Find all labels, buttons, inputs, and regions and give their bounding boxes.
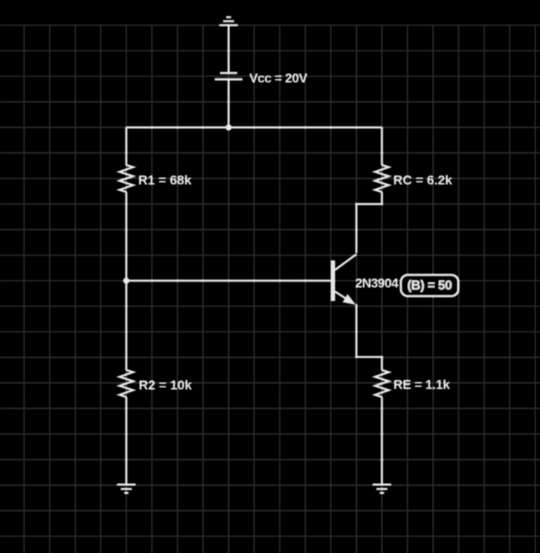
- svg-text:R2 = 10k: R2 = 10k: [139, 377, 193, 392]
- node base junction: [123, 278, 129, 284]
- wire rail to RC: [381, 127, 383, 165]
- svg-text:RE = 1.1k: RE = 1.1k: [393, 377, 450, 392]
- wire base node to R2: [125, 281, 127, 370]
- wire base (node to transistor): [126, 280, 331, 282]
- label R2 = 10k: [139, 377, 193, 392]
- node Vcc junction: [226, 124, 232, 130]
- resistor RE: [375, 370, 389, 397]
- ground (bottom right): [373, 485, 391, 493]
- label RE = 1.1k: [393, 377, 450, 392]
- resistor R2: [120, 370, 134, 397]
- label Vcc = 20V: [249, 71, 308, 86]
- svg-text:Vcc = 20V: Vcc = 20V: [249, 71, 308, 86]
- svg-text:R1 = 68k: R1 = 68k: [138, 172, 192, 187]
- label R1 = 68k: [138, 172, 192, 187]
- resistor RC: [375, 165, 389, 192]
- wire Vcc rail (horizontal): [126, 126, 382, 128]
- label (B) = 50: [407, 278, 452, 293]
- wire emitter to RE (jog): [356, 304, 382, 370]
- svg-text:2N3904: 2N3904: [355, 275, 399, 290]
- wire rail to R1: [125, 127, 127, 165]
- wire top ground to battery: [228, 25, 230, 73]
- transistor Q1 2N3904: [331, 254, 356, 305]
- battery V1 (Vcc source): [215, 73, 243, 79]
- resistor R1: [120, 165, 134, 192]
- svg-text:RC = 6.2k: RC = 6.2k: [393, 173, 453, 188]
- ground (bottom left): [117, 485, 135, 493]
- label RC = 6.2k: [393, 173, 453, 188]
- callout box for beta: [401, 275, 459, 297]
- wire RE to ground: [381, 397, 383, 485]
- wire R2 to ground: [125, 397, 127, 485]
- svg-text:(B) = 50: (B) = 50: [407, 278, 452, 293]
- wire RC to collector (jog): [356, 192, 382, 253]
- ground (top, Vcc return): [219, 17, 237, 25]
- wire battery to Vcc rail: [228, 79, 230, 127]
- label 2N3904: [355, 275, 399, 290]
- wire R1 to base node: [125, 192, 127, 281]
